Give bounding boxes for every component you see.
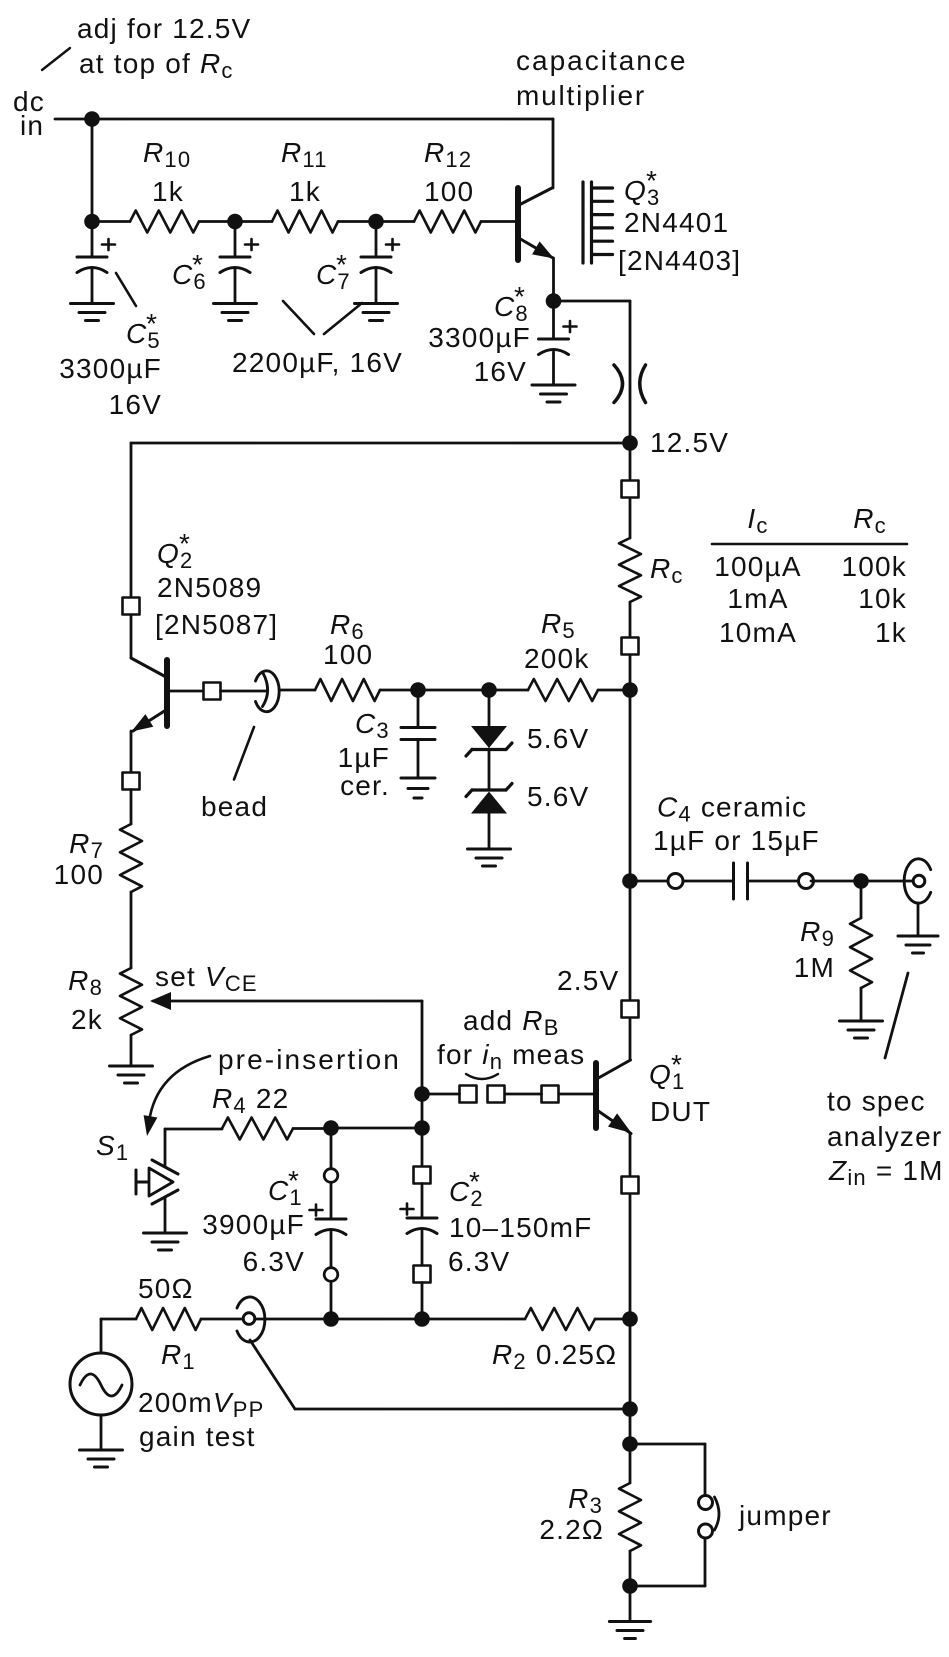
svg-text:adj for 12.5V: adj for 12.5V: [77, 13, 251, 44]
svg-text:1mA: 1mA: [727, 583, 788, 614]
svg-text:*: *: [469, 1166, 481, 1197]
svg-text:Zin = 1M: Zin = 1M: [828, 1155, 944, 1190]
svg-text:1k: 1k: [152, 176, 184, 207]
svg-text:100: 100: [424, 176, 474, 207]
svg-text:200k: 200k: [524, 643, 590, 674]
svg-text:*: *: [336, 249, 348, 280]
svg-text:2.5V: 2.5V: [557, 965, 619, 996]
svg-text:10k: 10k: [858, 583, 907, 614]
svg-text:*: *: [146, 308, 158, 339]
svg-text:[2N5087]: [2N5087]: [155, 609, 278, 640]
svg-text:for in meas: for in meas: [437, 1039, 585, 1074]
svg-text:1k: 1k: [875, 617, 907, 648]
svg-text:50Ω: 50Ω: [138, 1273, 194, 1304]
svg-text:R4 22: R4 22: [212, 1083, 289, 1118]
svg-text:to spec: to spec: [827, 1086, 926, 1117]
svg-text:*: *: [646, 165, 658, 196]
svg-text:[2N4403]: [2N4403]: [618, 245, 741, 276]
svg-text:3300µF: 3300µF: [428, 322, 531, 353]
svg-text:*: *: [179, 528, 191, 559]
svg-text:capacitance: capacitance: [516, 45, 687, 76]
svg-text:pre-insertion: pre-insertion: [218, 1044, 401, 1075]
svg-text:cer.: cer.: [340, 770, 390, 801]
svg-text:3900µF: 3900µF: [202, 1209, 305, 1240]
svg-text:2.2Ω: 2.2Ω: [539, 1514, 604, 1545]
svg-text:*: *: [671, 1049, 683, 1080]
svg-text:16V: 16V: [109, 389, 162, 420]
svg-text:6.3V: 6.3V: [448, 1246, 510, 1277]
svg-text:*: *: [192, 249, 204, 280]
svg-text:5.6V: 5.6V: [527, 723, 589, 754]
svg-text:1µF: 1µF: [338, 742, 390, 773]
svg-text:gain test: gain test: [139, 1421, 256, 1452]
svg-text:at top of Rc: at top of Rc: [79, 48, 234, 83]
svg-text:100µA: 100µA: [714, 551, 802, 582]
svg-text:10–150mF: 10–150mF: [449, 1212, 592, 1243]
svg-text:R2 0.25Ω: R2 0.25Ω: [492, 1339, 617, 1374]
svg-text:1µF or 15µF: 1µF or 15µF: [653, 825, 820, 856]
svg-text:3300µF: 3300µF: [59, 353, 162, 384]
svg-text:1M: 1M: [794, 952, 835, 983]
svg-text:6.3V: 6.3V: [243, 1246, 305, 1277]
svg-text:16V: 16V: [474, 356, 527, 387]
svg-text:12.5V: 12.5V: [650, 427, 729, 458]
svg-text:*: *: [288, 1165, 300, 1196]
svg-text:analyzer: analyzer: [827, 1121, 942, 1152]
svg-text:*: *: [514, 281, 526, 312]
svg-text:1k: 1k: [289, 176, 321, 207]
svg-text:2k: 2k: [71, 1004, 103, 1035]
svg-text:multiplier: multiplier: [516, 80, 646, 111]
svg-text:2200µF, 16V: 2200µF, 16V: [232, 347, 403, 378]
svg-text:in: in: [20, 110, 44, 141]
svg-text:100: 100: [323, 639, 373, 670]
svg-text:10mA: 10mA: [719, 617, 797, 648]
svg-text:DUT: DUT: [650, 1096, 711, 1127]
svg-text:100k: 100k: [841, 551, 907, 582]
svg-text:100: 100: [54, 859, 104, 890]
svg-text:2N5089: 2N5089: [157, 572, 262, 603]
svg-text:bead: bead: [201, 791, 268, 822]
svg-text:5.6V: 5.6V: [527, 781, 589, 812]
svg-text:jumper: jumper: [738, 1500, 832, 1531]
svg-text:2N4401: 2N4401: [624, 207, 729, 238]
